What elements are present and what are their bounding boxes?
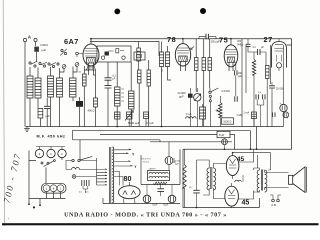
tube V2 78 [175, 44, 190, 66]
transformer secondary leads mid [114, 161, 132, 166]
wire bus E [150, 141, 232, 143]
wire bus C [100, 127, 257, 150]
band switch upper contacts [61, 49, 63, 51]
svg-text:0.1 μF: 0.1 μF [146, 121, 154, 125]
resistor bias zigzag [183, 165, 186, 189]
svg-text:1 mA: 1 mA [186, 113, 192, 116]
coil L1 antenna [27, 76, 33, 98]
svg-text:μμF: μμF [175, 163, 180, 165]
power transformer primary taps [97, 158, 108, 185]
capacitor C8 series [246, 44, 251, 46]
power transformer winding [112, 147, 114, 203]
capacitor pair mid [235, 96, 237, 102]
wire 78 arrow [191, 47, 195, 50]
capacitor padder [44, 106, 50, 108]
tube V7 45 lower [225, 186, 239, 206]
coil L7 IF [129, 91, 135, 109]
field terminals A B [272, 199, 275, 202]
capacitor pair 0.5 [256, 94, 265, 99]
wires coil section verticals [30, 67, 77, 127]
svg-text:μμF: μμF [179, 94, 184, 98]
trimmer T2 [75, 63, 79, 67]
wire top bus B+ [90, 39, 292, 150]
wire lower block frame [180, 149, 260, 207]
svg-text:0.0001: 0.0001 [40, 44, 48, 47]
voltage selector top circles [35, 149, 43, 157]
wire bus to speaker [233, 153, 271, 170]
handwritten note 700-707 [2, 152, 23, 204]
terminal grid 6A7 [76, 52, 79, 55]
volume potentiometer 0.5 Mohm [219, 103, 223, 118]
resistor R5 box [202, 58, 206, 71]
capacitor 200uuF right of 75 [235, 70, 237, 75]
electrolytic C12 [168, 195, 176, 203]
electrolytic C11 [143, 195, 151, 203]
wire bottom bus top-section [26, 126, 284, 128]
svg-text:80: 80 [124, 174, 132, 183]
svg-text:UNDA RADIO - MODD. « TRI UND: UNDA RADIO - MODD. « TRI UNDA 700 » - « … [64, 212, 227, 218]
electrolytic below 8uF [222, 139, 228, 145]
capacitor bias [193, 190, 199, 193]
filament squiggle between 45s [235, 180, 241, 182]
tube V1 6A7 [83, 44, 99, 66]
coil L6 IF [115, 87, 121, 106]
svg-text:CAMPO: CAMPO [149, 167, 157, 170]
svg-text:M.F. 450 kHz: M.F. 450 kHz [37, 134, 66, 138]
capacitor box row2 with arrow [127, 112, 133, 119]
junction dot selector [33, 207, 35, 209]
coil L4 oscillator [57, 78, 63, 97]
core lamination marks [122, 89, 125, 101]
ground symbol [24, 127, 30, 132]
capacitor 20000 block [188, 94, 193, 98]
trimmer T1 [62, 65, 66, 69]
antenna terminal A [23, 38, 26, 41]
transformer filament taps [114, 172, 123, 186]
svg-text:5000 μμF: 5000 μμF [128, 121, 140, 125]
svg-text:1000 Ω: 1000 Ω [223, 121, 231, 124]
capacitor fixed dark [76, 101, 83, 107]
trimmer capacitor 0.0001 uuF [34, 47, 39, 52]
svg-text:27: 27 [264, 35, 273, 44]
svg-text:8 μF: 8 μF [219, 133, 225, 137]
junction dots top bus [90, 38, 92, 40]
svg-text:30 000: 30 000 [174, 161, 181, 163]
tube V3 75 [224, 45, 238, 67]
wire bus D [73, 131, 161, 160]
capacitor bars row right [273, 112, 276, 117]
power transformer core [109, 147, 110, 203]
capacitor pair mains [82, 180, 89, 186]
resistor R3 box [147, 70, 151, 86]
coil L2 [35, 78, 41, 98]
capacitor 200 uuF top [206, 34, 208, 40]
capacitor 0.1 uF grid 27 [258, 49, 260, 55]
wires selector [29, 151, 66, 205]
electrolytic C10 [165, 157, 173, 165]
resistor box row right [252, 112, 257, 119]
svg-text:1 mA: 1 mA [244, 112, 250, 115]
svg-text:8 μF: 8 μF [153, 204, 158, 207]
svg-text:A.B: A.B [271, 203, 276, 207]
svg-text:μμF: μμF [46, 115, 51, 118]
svg-text:25 000: 25 000 [276, 87, 284, 90]
choke pair under 75 [200, 107, 206, 119]
resistor R4 box [195, 58, 199, 71]
wire top bus 2 [90, 42, 159, 57]
tube V4 27 [272, 42, 287, 68]
resistor R2 box [138, 70, 142, 83]
resistor 28 box [38, 109, 43, 119]
voltage selector lower circles [42, 183, 67, 193]
tube V5 rectifier 80 [119, 186, 141, 199]
svg-text:78: 78 [167, 35, 176, 44]
tube 6A7 base [87, 66, 96, 70]
svg-text:μμF: μμF [42, 49, 47, 52]
resistor 1000 ohm box [222, 118, 234, 124]
pilot lamp [72, 175, 76, 179]
wires 45 plates [238, 149, 257, 199]
tube V6 45 upper [226, 156, 239, 176]
resistor 400 ohm box [94, 98, 98, 107]
divider zigzag [154, 182, 167, 185]
field coil box [148, 171, 170, 181]
capacitor filter [157, 189, 164, 192]
potentiometer P1 circle [194, 94, 201, 101]
transformer secondary leads top [114, 149, 131, 154]
capacitor 8uF box mid [217, 131, 230, 137]
svg-text:6A7: 6A7 [64, 37, 79, 46]
coil L3 [48, 76, 54, 97]
coil L5 [70, 78, 77, 97]
capacitor stack C4 [105, 78, 112, 88]
fuse squiggle [72, 168, 80, 170]
wire trimmer to switch [36, 52, 38, 62]
speaker [289, 175, 293, 184]
svg-text:400 Ω: 400 Ω [88, 109, 95, 113]
resistor R8 box [266, 66, 270, 79]
IF transformer T1 [160, 52, 164, 67]
wire bus B [72, 131, 250, 150]
svg-text:45: 45 [242, 200, 250, 207]
padder box [134, 52, 145, 60]
svg-text:2500 Ω: 2500 Ω [143, 161, 150, 163]
wire antenna down-lead [25, 42, 36, 127]
junction dots lower bus [224, 148, 226, 150]
resistor R6 box [208, 58, 212, 71]
band switch contact row [29, 62, 31, 64]
wires right verticals [242, 39, 292, 127]
wires 6A7 stems [84, 70, 95, 98]
wire filter horizontals [103, 155, 180, 204]
svg-text:0.5 MΩ: 0.5 MΩ [222, 90, 230, 93]
switch S1 mains [72, 159, 74, 161]
resistor R2a box [137, 48, 141, 61]
electrolytic C9 circle [280, 104, 287, 111]
selector rotary contacts [41, 162, 43, 164]
choke 1mA bumps [186, 117, 197, 119]
resistor R1 box [83, 74, 87, 86]
svg-text:TELEVOX: TELEVOX [141, 159, 151, 161]
svg-text:X: X [161, 69, 163, 73]
resistor 250k zigzag [252, 60, 255, 76]
svg-text:20 000: 20 000 [178, 91, 186, 95]
svg-text:75: 75 [219, 36, 228, 45]
oscillator box [97, 46, 131, 62]
switch S2 [209, 91, 211, 93]
svg-text:8 μF: 8 μF [164, 204, 169, 207]
capacitor box row3 [144, 112, 149, 119]
output transformer T3 [261, 170, 262, 191]
interstage transformer T2 [211, 167, 212, 189]
resistor 25000 [269, 86, 275, 88]
electrolytic small right [283, 112, 289, 118]
capacitor box row1 [115, 112, 121, 119]
